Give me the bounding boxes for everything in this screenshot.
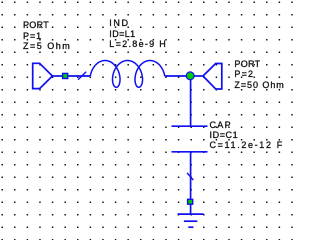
pin tick inductor L1 pin 1 [78, 72, 86, 80]
label IND L1 line ID=L1 [109, 29, 135, 39]
pin tick capacitor C1 pin 2 [187, 173, 193, 180]
capacitor C1 top plate [172, 125, 208, 127]
label PORT P2 line P=2 [234, 69, 254, 79]
label CAP C1 line C=11.2e-12 F [210, 140, 284, 150]
label PORT P1 line PORT [23, 20, 49, 30]
label IND L1 line IND [109, 18, 129, 28]
ground bar 2 [184, 220, 197, 222]
node square ground side [188, 199, 193, 204]
wire inductor pin 2 to junction [165, 75, 190, 77]
label PORT P2 line PORT [234, 59, 260, 69]
inductor L1 [90, 61, 164, 88]
wire capacitor C1 pin 2 to ground node [190, 152, 192, 199]
capacitor C1 bottom plate [172, 151, 208, 153]
wire junction down to capacitor C1 pin 1 [190, 76, 192, 126]
wire node to inductor pin 1 [68, 75, 90, 77]
label IND L1 line L=2.8e-9 H [109, 39, 167, 49]
node square port P1 side [63, 73, 68, 78]
label PORT P1 line Z=5 Ohm [23, 41, 71, 51]
label CAP C1 line ID=C1 [210, 130, 239, 140]
label CAP C1 line CAP [210, 120, 232, 130]
port P1 [33, 63, 53, 88]
label PORT P2 line Z=50 Ohm [234, 80, 284, 90]
ground bar 3 [188, 226, 193, 228]
ground bar 1 [178, 213, 204, 215]
port P2 [203, 64, 222, 90]
label PORT P1 line P=1 [23, 31, 42, 41]
wire ground node to ground symbol [190, 204, 192, 214]
wire port P1 to node [52, 75, 62, 77]
junction node A [186, 72, 194, 80]
wire junction to port P2 [190, 75, 203, 77]
